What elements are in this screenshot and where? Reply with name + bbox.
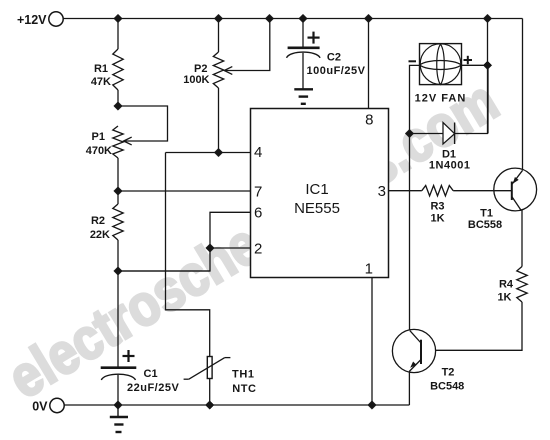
svg-text:T1: T1 — [480, 208, 493, 220]
svg-text:22K: 22K — [90, 229, 110, 241]
terminal +12V — [17, 12, 63, 27]
node C1/ground junction — [114, 401, 123, 410]
svg-text:100K: 100K — [183, 74, 209, 86]
node pin1/bottom rail — [368, 401, 377, 410]
pin 6 label — [254, 205, 262, 222]
svg-text:12V FAN: 12V FAN — [415, 93, 467, 105]
resistor R2 — [90, 204, 123, 241]
pin 7 label — [254, 184, 262, 201]
svg-text:1K: 1K — [497, 291, 511, 303]
terminal 0V — [32, 398, 64, 413]
wire rail to fan plus node — [487, 19, 489, 134]
svg-text:0V: 0V — [32, 400, 48, 414]
ground at C1 — [110, 405, 128, 432]
wire top +12V rail — [64, 18, 523, 20]
svg-text:BC558: BC558 — [468, 219, 502, 231]
transistor T1 BC558 — [468, 168, 537, 231]
wire bottom 0V rail — [65, 404, 410, 406]
wire T2 emitter to bottom rail — [408, 372, 410, 406]
node P2/pin4 junction — [214, 148, 223, 157]
svg-text:3: 3 — [378, 183, 386, 200]
svg-text:C1: C1 — [144, 368, 158, 380]
fan plus label — [464, 56, 473, 64]
wire node C down to C1 — [117, 271, 119, 367]
svg-text:100uF/25V: 100uF/25V — [307, 65, 366, 77]
watermark electroschematics.com — [0, 68, 509, 411]
pin 2 label — [254, 241, 262, 258]
svg-text:T2: T2 — [442, 367, 455, 379]
op-amp IC1 NE555 box — [251, 109, 389, 278]
wire C2 to ground — [302, 53, 304, 89]
resistor R3 — [422, 186, 453, 225]
svg-text:P1: P1 — [92, 131, 105, 143]
node C junction R2/C1/pins2-6 — [114, 267, 123, 276]
potentiometer P1 wiper arrow — [124, 137, 132, 145]
potentiometer P2 — [183, 52, 223, 88]
diode D1 — [410, 65, 489, 171]
svg-text:1K: 1K — [430, 213, 444, 225]
svg-text:NE555: NE555 — [294, 200, 340, 217]
svg-text:4: 4 — [254, 144, 262, 161]
wire node B to pin 7 — [118, 190, 251, 192]
wire pin 6 line — [210, 212, 251, 248]
resistor R1 — [91, 49, 123, 90]
pin 4 label — [254, 144, 262, 161]
wire rail to P2 — [218, 19, 220, 53]
node rail/P2 top — [214, 14, 223, 23]
svg-text:IC1: IC1 — [305, 181, 328, 198]
wire pin 3 to R3 — [389, 190, 422, 192]
wire pin 2 line — [210, 247, 251, 249]
wire pin 1 stub — [371, 278, 373, 406]
wire pin2-6 down to node C branch — [118, 248, 210, 271]
wire right rail down to T1 emitter — [522, 19, 524, 170]
svg-text:6: 6 — [254, 205, 262, 222]
svg-text:470K: 470K — [86, 145, 112, 157]
svg-text:47K: 47K — [91, 76, 111, 88]
wire node C to pin2-6 branch — [118, 270, 210, 272]
transistor T2 BC548 — [392, 329, 464, 392]
svg-text:22uF/25V: 22uF/25V — [127, 382, 179, 394]
wire R3 to T1 base — [453, 190, 494, 192]
wire R1 to node A — [117, 90, 119, 106]
node fan plus junction — [483, 61, 492, 70]
wire node B to R2 — [117, 191, 119, 204]
capacitor C2 — [287, 32, 366, 77]
wire C1 to bottom rail — [117, 375, 119, 405]
node rail/R1 top — [114, 14, 123, 23]
node rail/fan riser — [483, 14, 492, 23]
node B junction P1/R2/pin7 — [114, 187, 123, 196]
svg-text:R4: R4 — [499, 279, 514, 291]
wire P1 wiper loop — [118, 106, 168, 141]
wire fan minus down — [410, 65, 420, 330]
node TH1/bottom rail — [205, 401, 214, 410]
node D1 anode junction — [405, 129, 414, 138]
wire R4 to T2 base — [421, 302, 522, 350]
svg-text:BC548: BC548 — [430, 381, 464, 393]
wire R2 to node C — [117, 240, 119, 271]
svg-text:1N4001: 1N4001 — [429, 160, 471, 172]
svg-text:R1: R1 — [94, 63, 108, 75]
node A junction R1/P1 — [114, 102, 123, 111]
potentiometer P1 — [86, 126, 123, 158]
svg-text:NTC: NTC — [232, 383, 256, 395]
wire P1 to node B — [117, 158, 119, 191]
wire rail to C2 — [302, 19, 304, 48]
capacitor C1 — [101, 350, 180, 394]
svg-text:TH1: TH1 — [232, 369, 255, 381]
wire fan plus to riser — [462, 64, 488, 66]
potentiometer P2 wiper arrow — [224, 67, 232, 75]
svg-text:7: 7 — [254, 184, 262, 201]
pin 1 label — [365, 261, 373, 278]
wire pin 8 stub — [368, 19, 370, 109]
node rail/P2 wiper — [265, 14, 274, 23]
wire T1 collector to R4 — [521, 210, 523, 267]
wire pin 4 down leg — [166, 153, 210, 357]
svg-text:+12V: +12V — [17, 13, 47, 27]
svg-text:8: 8 — [365, 112, 373, 129]
svg-text:C2: C2 — [327, 52, 341, 64]
wire rail to R1 — [117, 19, 119, 50]
svg-text:R3: R3 — [430, 201, 444, 213]
node rail/pin8 — [364, 14, 373, 23]
svg-text:R2: R2 — [91, 215, 105, 227]
wire P2 to pin 4 line — [218, 88, 220, 153]
node rail/C2 — [299, 14, 308, 23]
motor M1 12V FAN — [415, 44, 467, 105]
svg-text:2: 2 — [254, 241, 262, 258]
wire P2 wiper to rail — [224, 19, 270, 71]
svg-text:1: 1 — [365, 261, 373, 278]
thermistor TH1 — [184, 357, 257, 396]
pin 8 label — [365, 112, 373, 129]
pin 3 label — [378, 183, 386, 200]
wire pin 4 line — [166, 152, 251, 154]
node pin2/pin6 junction — [206, 244, 215, 253]
resistor R4 — [497, 267, 527, 304]
ground at C2 — [294, 89, 313, 104]
fan minus label — [409, 60, 417, 62]
wire TH1 to bottom rail — [209, 379, 211, 406]
